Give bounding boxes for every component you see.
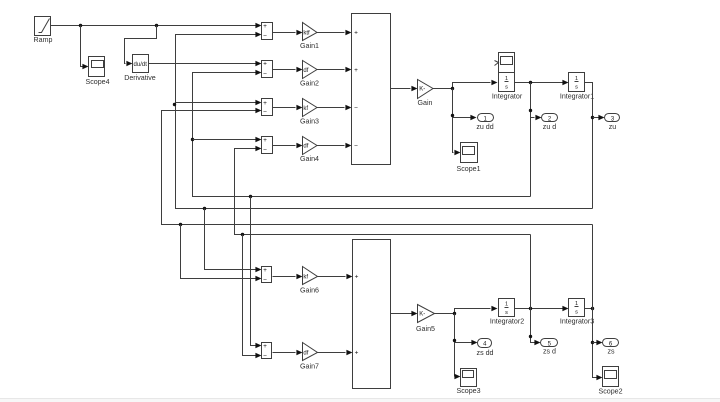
window edge line at bottom bbox=[0, 398, 720, 400]
derivative block Derivative bbox=[124, 55, 156, 82]
scope display atop Integrator bbox=[495, 53, 515, 73]
wire Gain2 output to Sum block input 2 bbox=[317, 67, 352, 72]
node junction at Integrator output (zu d net) bbox=[529, 81, 532, 84]
integrator Integrator2 (1/s) bbox=[490, 299, 524, 326]
svg-text:+: + bbox=[263, 23, 267, 30]
svg-text:K-: K- bbox=[419, 87, 425, 93]
sum block Sum (large, top system) bbox=[352, 14, 391, 165]
wire Gain3 output to Sum block input 3 bbox=[317, 105, 352, 110]
node branch point for out port 6 bbox=[591, 341, 594, 344]
wire Gain4 output to Sum block input 4 bbox=[317, 143, 352, 148]
svg-text:Integrator3: Integrator3 bbox=[560, 317, 594, 325]
svg-text:1: 1 bbox=[575, 301, 578, 307]
gain Gain5 (K-) bbox=[416, 305, 435, 333]
sum block Sum4 bbox=[262, 137, 273, 154]
wire zs d branch down to Sum6 - bbox=[243, 235, 262, 359]
svg-text:−: − bbox=[263, 276, 267, 283]
scope Scope1 bbox=[456, 143, 480, 173]
svg-text:Ramp: Ramp bbox=[34, 36, 53, 44]
integrator Integrator3 (1/s) bbox=[560, 299, 594, 326]
node branch point for out port 1 bbox=[451, 114, 454, 117]
node branch on zu d line for Sum4 + bbox=[191, 138, 194, 141]
svg-text:+: + bbox=[355, 350, 359, 357]
node junction at Integrator2 output (zs d net) bbox=[529, 307, 532, 310]
wire Gain5 output to Integrator2 input bbox=[435, 306, 498, 314]
output port 4 (zs dd) bbox=[477, 339, 494, 357]
svg-text:df: df bbox=[303, 68, 308, 74]
wire zs d vertical (bus riser and port 5 feed) bbox=[531, 235, 535, 343]
output port 2 (zu d) bbox=[542, 114, 558, 131]
svg-text:+: + bbox=[263, 137, 267, 144]
wire zs dd branch down to Scope3 bbox=[454, 314, 460, 380]
svg-text:Integrator: Integrator bbox=[492, 92, 523, 100]
gain Gain2 (df) bbox=[300, 61, 319, 88]
gain Gain3 (kf) bbox=[300, 99, 319, 126]
output port 1 (zu dd) bbox=[476, 114, 493, 131]
svg-text:−: − bbox=[354, 142, 358, 149]
svg-text:s: s bbox=[575, 310, 578, 316]
svg-text:Scope3: Scope3 bbox=[456, 387, 480, 395]
wire to out port 2 bbox=[531, 115, 542, 120]
svg-text:+: + bbox=[263, 343, 267, 350]
svg-text:du/dt: du/dt bbox=[134, 62, 148, 68]
wire Sum3 output to Gain3 bbox=[273, 105, 303, 110]
output port 5 (zs d) bbox=[541, 339, 558, 356]
svg-text:zs d: zs d bbox=[543, 347, 556, 355]
svg-text:+: + bbox=[263, 267, 267, 274]
node junction at Gain output (zu dd net) bbox=[451, 87, 454, 90]
svg-text:Scope1: Scope1 bbox=[456, 165, 480, 173]
svg-text:−: − bbox=[263, 353, 267, 360]
svg-text:kf: kf bbox=[303, 106, 308, 112]
output port 3 (zu) bbox=[605, 114, 620, 131]
svg-text:ktf: ktf bbox=[303, 30, 310, 36]
wire bus zu d (feedback to Sum2 - and Sum4 +) bbox=[193, 70, 531, 197]
svg-text:+: + bbox=[354, 67, 358, 74]
svg-text:df: df bbox=[303, 143, 308, 149]
wire branch down to Scope4 bbox=[81, 26, 89, 70]
arrow into Scope2 bbox=[596, 375, 602, 380]
node junction at Integrator3 output (zs net) bbox=[591, 307, 594, 310]
wire bus zu (feedback to Sum1 - and Sum3 +) bbox=[176, 32, 593, 209]
wire bottom Sum output to Gain5 bbox=[391, 311, 418, 316]
svg-text:zu d: zu d bbox=[543, 123, 556, 131]
svg-text:K-: K- bbox=[419, 312, 425, 318]
svg-text:+: + bbox=[263, 61, 267, 68]
svg-text:s: s bbox=[575, 85, 578, 91]
node junction at Gain5 output (zs dd net) bbox=[453, 312, 456, 315]
wire branch to Derivative input bbox=[125, 26, 157, 67]
svg-text:Gain3: Gain3 bbox=[300, 117, 319, 125]
wire Sum5 output to Gain6 bbox=[273, 274, 303, 279]
svg-text:Derivative: Derivative bbox=[124, 74, 156, 82]
wire Sum1 output to Gain1 bbox=[273, 30, 303, 35]
scope Scope3 bbox=[456, 369, 480, 395]
wire Integrator3 output to zs vertical bbox=[585, 308, 593, 310]
wire to out port 3 bbox=[593, 115, 605, 120]
svg-text:s: s bbox=[505, 310, 508, 316]
wire ramp output to Sum1 + bbox=[51, 23, 262, 28]
svg-text:1: 1 bbox=[505, 76, 508, 82]
svg-text:+: + bbox=[263, 100, 267, 107]
wire Sum output to Gain bbox=[391, 86, 418, 91]
svg-text:Gain5: Gain5 bbox=[416, 325, 435, 333]
ramp source block Ramp bbox=[34, 17, 53, 44]
sum block Sum2 bbox=[262, 61, 273, 78]
gain Gain1 (ktf) bbox=[300, 23, 319, 50]
svg-text:zu dd: zu dd bbox=[476, 123, 493, 131]
svg-text:Gain1: Gain1 bbox=[300, 42, 319, 50]
sum block Sum5 bbox=[262, 267, 272, 284]
svg-text:Scope2: Scope2 bbox=[598, 387, 622, 395]
scope Scope4 bbox=[85, 57, 109, 86]
arrow into out port 5 bbox=[534, 340, 540, 345]
wire zu d branch down to Sum6 + bbox=[251, 197, 262, 349]
svg-text:s: s bbox=[505, 85, 508, 91]
wire Integrator1 output down (zu net) bbox=[585, 83, 593, 209]
wire zu branch down to Sum5 + bbox=[205, 209, 262, 273]
wire Integrator2 output to Integrator3 bbox=[515, 306, 569, 311]
wire branch to Sum3 + bbox=[176, 100, 262, 105]
wire to out port 6 bbox=[593, 340, 603, 345]
wire zu dd branch down to Scope1 bbox=[453, 89, 461, 156]
gain Gain6 (kf) bbox=[300, 267, 319, 295]
svg-text:Scope4: Scope4 bbox=[85, 78, 109, 86]
node branch on zu bus down to Sum5 + bbox=[203, 207, 206, 210]
wire bus zs (feedback to Sum3 -) bbox=[162, 108, 593, 225]
svg-text:+: + bbox=[355, 273, 359, 280]
node branch point for out port 4 bbox=[453, 339, 456, 342]
wire branch to Sum4 + bbox=[193, 137, 262, 142]
node branch point for out port 5 bbox=[529, 335, 532, 338]
wire Sum4 output to Gain4 bbox=[273, 143, 303, 148]
node branch point for out port 2 bbox=[529, 109, 532, 112]
node junction on ramp wire (branch to Scope4) bbox=[79, 24, 82, 27]
wire bus zs d (feedback to Sum4 -) bbox=[235, 146, 531, 235]
svg-text:Gain7: Gain7 bbox=[300, 362, 319, 370]
svg-text:zs: zs bbox=[607, 347, 615, 355]
node branch on zs d bus down to Sum6 - bbox=[241, 233, 244, 236]
svg-text:−: − bbox=[354, 105, 358, 112]
integrator Integrator (1/s) bbox=[492, 73, 523, 101]
svg-text:zu: zu bbox=[609, 123, 617, 131]
node branch on zs bus down to Sum5 - bbox=[179, 223, 182, 226]
svg-text:Gain: Gain bbox=[418, 99, 433, 107]
wire Gain output to Integrator input bbox=[433, 80, 498, 89]
integrator Integrator1 (1/s) bbox=[560, 73, 594, 101]
wire Gain1 output to Sum block input 1 bbox=[317, 30, 352, 35]
svg-text:−: − bbox=[263, 70, 267, 77]
node branch on zu d bus down to Sum6 + bbox=[249, 195, 252, 198]
gain Gain7 (df) bbox=[300, 343, 319, 371]
wire Gain7 output to Sum1 (large bottom) input 2 bbox=[318, 350, 353, 355]
svg-text:df: df bbox=[303, 350, 308, 356]
gain Gain4 (df) bbox=[300, 137, 319, 163]
svg-text:Gain2: Gain2 bbox=[300, 79, 319, 87]
svg-text:−: − bbox=[263, 32, 267, 39]
wire zs vertical (bus riser, port 6, Scope2) bbox=[593, 225, 597, 378]
sum block Sum3 bbox=[262, 99, 273, 116]
output port 6 (zs) bbox=[603, 339, 619, 356]
svg-text:zs dd: zs dd bbox=[477, 349, 494, 357]
wire to out port 4 bbox=[455, 340, 478, 345]
node branch on zu line for Sum3 + bbox=[173, 103, 176, 106]
svg-text:kf: kf bbox=[303, 274, 308, 280]
wire Gain6 output to Sum1 (large bottom) input 1 bbox=[318, 274, 353, 279]
sum block Sum1 (large, bottom system) bbox=[353, 240, 391, 389]
svg-text:Gain6: Gain6 bbox=[300, 286, 319, 294]
svg-text:1: 1 bbox=[575, 76, 578, 82]
svg-text:−: − bbox=[263, 146, 267, 153]
svg-text:Integrator1: Integrator1 bbox=[560, 92, 594, 100]
wire Integrator output to Integrator1 bbox=[515, 80, 569, 85]
node branch point for out port 3 bbox=[591, 116, 594, 119]
wire to out port 1 bbox=[453, 115, 477, 120]
svg-text:1: 1 bbox=[505, 301, 508, 307]
gain Gain (K-) bbox=[418, 80, 434, 107]
wire zu d vertical down to bus bbox=[530, 83, 532, 197]
svg-text:+: + bbox=[354, 29, 358, 36]
svg-text:−: − bbox=[263, 108, 267, 115]
sum block Sum6 bbox=[262, 343, 272, 360]
wire Sum2 output to Gain2 bbox=[273, 67, 303, 72]
wire Derivative output to Sum2 + bbox=[149, 61, 262, 66]
svg-text:Integrator2: Integrator2 bbox=[490, 317, 524, 325]
scope Scope2 bbox=[598, 367, 622, 396]
node junction on ramp wire (branch to Derivative) bbox=[155, 24, 158, 27]
wire zs branch down to Sum5 - bbox=[181, 225, 262, 282]
sum block Sum1 bbox=[262, 23, 273, 40]
svg-text:Gain4: Gain4 bbox=[300, 155, 319, 163]
wire Sum6 output to Gain7 bbox=[273, 350, 303, 355]
